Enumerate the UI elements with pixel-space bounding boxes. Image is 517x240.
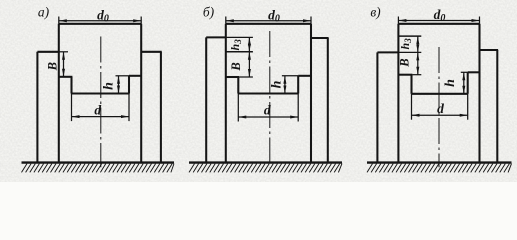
figure b: d right arrow: [290, 116, 298, 119]
figure b: right shoulder: [311, 37, 329, 39]
figure a: d0 left arrow: [59, 19, 67, 22]
figure v: h3/B dimension line: [417, 36, 419, 75]
figure a: d0 extension right: [140, 17, 142, 24]
figure v: right wall inner edge: [467, 72, 469, 94]
figure a: d left arrow: [72, 115, 80, 118]
svg-text:d: d: [94, 103, 101, 118]
svg-text:В: В: [398, 58, 412, 67]
figure a: left wall top edge: [58, 76, 72, 78]
figure v: left shoulder: [377, 51, 398, 53]
figure v: h dimension line: [463, 72, 465, 94]
figure b: h3 top arrow: [248, 37, 251, 45]
figure b: B bottom arrow: [248, 69, 251, 77]
figure a: left shoulder: [37, 51, 58, 53]
figure v: d left arrow: [412, 114, 420, 117]
figure a: ground hatching: [22, 164, 175, 173]
figure a: h top extension line: [116, 75, 130, 77]
figure a: outer body right edge: [160, 52, 162, 163]
figure a: block/sleeve left edge: [58, 24, 60, 163]
figure b: ground line: [189, 161, 342, 163]
figure b: d0 right arrow: [303, 19, 311, 22]
figure v: outer body right edge: [496, 50, 498, 163]
figure v: d0 dimension line: [398, 20, 479, 22]
figure a: right shoulder: [141, 51, 162, 53]
figure v: block top edge: [398, 23, 479, 25]
figure v: ground hatching: [367, 164, 512, 173]
figure b: block/sleeve right edge: [310, 24, 312, 163]
figure b: d extension left: [237, 94, 239, 122]
figure a: B bottom arrow: [62, 69, 65, 77]
figure v: h top extension line: [461, 71, 468, 73]
figure a: d0 extension left: [58, 17, 60, 24]
figure b: d0 dimension line: [226, 20, 311, 22]
svg-text:d: d: [264, 103, 271, 118]
figure a: right wall inner edge: [128, 76, 130, 94]
figure v: right shoulder: [480, 49, 499, 51]
figure b: ground hatching: [189, 164, 342, 173]
figure b: d0 extension left: [225, 17, 227, 24]
figure v: right wall top edge: [468, 71, 480, 73]
figure b: h top arrow: [283, 76, 286, 84]
figure a: d extension left: [71, 94, 73, 122]
figure v: h3 bottom arrow: [416, 44, 419, 52]
figure v: d0 left arrow: [398, 19, 406, 22]
figure b: d extension right: [297, 94, 299, 122]
figure b: right wall inner edge: [297, 76, 299, 94]
svg-text:d: d: [437, 101, 444, 116]
figure v: center line: [438, 47, 440, 167]
figure v: block/sleeve right edge: [478, 24, 480, 163]
figure b: outer body right edge: [327, 38, 329, 163]
figure a: recess floor (web): [72, 92, 130, 94]
figure a: block top edge: [59, 23, 141, 25]
figure b: d0 left arrow: [226, 19, 234, 22]
figure v: h3 top arrow: [416, 36, 419, 44]
figure b: left wall inner edge: [237, 77, 239, 94]
figure a: ground line: [22, 161, 175, 163]
figure a: h dimension line: [118, 76, 120, 94]
figure b: h dimension line: [284, 76, 286, 94]
figure b: recess floor (web): [238, 92, 298, 94]
svg-text:в): в): [370, 5, 381, 20]
figure v: d0 extension right: [479, 17, 481, 24]
figure a: center line: [100, 37, 102, 168]
figure a: h top arrow: [117, 76, 120, 84]
figure a: d0 right arrow: [133, 19, 141, 22]
figure b: left shoulder: [206, 36, 226, 38]
figure b: h top extension line: [282, 75, 298, 77]
figure v: h3 top reference edge: [398, 35, 421, 37]
figure b: h3 bottom arrow: [248, 44, 251, 52]
svg-text:В: В: [229, 62, 243, 71]
figure b: h3 top extension (shoulder ext): [226, 36, 253, 38]
svg-text:h: h: [269, 80, 284, 88]
figure b: d0 extension right: [310, 17, 312, 24]
figure b: step ledge: [226, 51, 253, 53]
figure b: block top edge: [226, 23, 311, 25]
figure v: d extension left: [411, 94, 413, 120]
figure v: h3 bottom extension (shoulder ext): [398, 51, 421, 53]
figure a: h bottom arrow: [117, 86, 120, 94]
svg-text:h: h: [443, 79, 458, 87]
svg-text:б): б): [203, 5, 215, 20]
svg-text:h: h: [101, 82, 116, 90]
figure b: d left arrow: [238, 116, 246, 119]
figure v: d right arrow: [460, 114, 468, 117]
figure v: B bottom wall-top extension: [412, 74, 421, 76]
figure b: outer body left edge: [205, 37, 207, 162]
figure a: left wall inner edge: [70, 77, 72, 94]
figure a: d dimension line: [72, 116, 130, 118]
figure a: d extension right: [128, 94, 130, 122]
figure b: block/sleeve left edge: [225, 24, 227, 163]
figure b: d dimension line: [238, 116, 298, 118]
figure v: ground line: [367, 161, 512, 163]
figure v: h bottom arrow: [462, 86, 465, 94]
figure b: right wall top edge: [298, 75, 311, 77]
figure v: left wall top edge: [398, 74, 413, 76]
figure a: outer body left edge: [36, 52, 38, 163]
figure b: left wall top edge: [225, 76, 239, 78]
paper background: [0, 0, 517, 182]
figure b: center line: [269, 31, 271, 167]
figure v: left wall inner edge: [410, 75, 412, 94]
figure a: B top extension: [59, 51, 68, 53]
figure v: h top arrow: [462, 72, 465, 80]
figure b: B bottom wall-top extension: [239, 76, 253, 78]
figure b: h bottom arrow: [283, 86, 286, 94]
figure a: d right arrow: [121, 115, 129, 118]
figure v: B bottom arrow: [416, 67, 419, 75]
figure a: block/sleeve right edge: [140, 24, 142, 163]
figure a: right wall top edge: [129, 75, 142, 77]
figure v: recess floor (web): [412, 93, 468, 95]
figure b: h3/B dimension line: [248, 37, 250, 77]
figure v: d0 extension left: [397, 17, 399, 24]
figure v: d extension right: [467, 94, 469, 120]
figure v: outer body left edge: [376, 52, 378, 162]
figure a: B dimension line: [63, 52, 65, 77]
figure a: d0 dimension line: [59, 20, 141, 22]
figure v: B top arrow: [416, 52, 419, 60]
figure v: d0 right arrow: [472, 19, 480, 22]
figure v: d dimension line: [412, 114, 468, 116]
figure v: block/sleeve left edge: [397, 24, 399, 163]
svg-text:а): а): [38, 5, 50, 20]
svg-text:В: В: [46, 62, 60, 71]
figure b: B top arrow: [248, 52, 251, 60]
figure a: B top arrow: [62, 52, 65, 60]
paper speckle texture: [0, 0, 517, 182]
